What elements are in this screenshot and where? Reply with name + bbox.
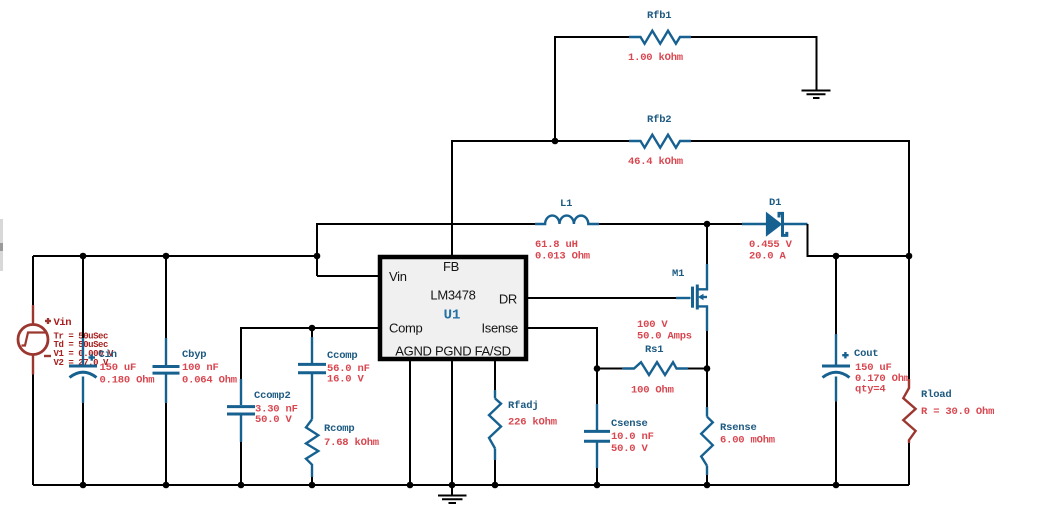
node rail Cout xyxy=(833,482,840,489)
svg-text:Rs1: Rs1 xyxy=(645,344,663,356)
svg-text:Ccomp2: Ccomp2 xyxy=(254,390,291,402)
node Rfb junction xyxy=(552,138,559,145)
svg-text:U1: U1 xyxy=(444,308,461,324)
scrollbar fragment left edge xyxy=(0,219,3,271)
svg-text:50.0 Amps: 50.0 Amps xyxy=(637,331,692,343)
svg-text:0.455 V: 0.455 V xyxy=(749,239,793,251)
ground (bottom center) xyxy=(438,485,467,503)
resistor Rfadj xyxy=(489,390,501,460)
capacitor Ccomp leads xyxy=(311,328,313,337)
svg-text:Rload: Rload xyxy=(921,389,952,401)
svg-text:226 kOhm: 226 kOhm xyxy=(508,417,557,429)
capacitor Cbyp xyxy=(153,256,180,485)
wire top-left rail xyxy=(33,255,317,257)
wire D1 to Vout corner xyxy=(808,224,910,256)
svg-text:16.0 V: 16.0 V xyxy=(327,374,365,386)
svg-text:qty=4: qty=4 xyxy=(855,384,886,396)
node Ccomp tap xyxy=(309,325,316,332)
resistor Rfb2 xyxy=(629,135,691,148)
U1 LM3478 body xyxy=(380,257,526,359)
node Rs1 right xyxy=(704,365,711,372)
source Vin xyxy=(18,256,48,485)
node Vout right xyxy=(906,253,913,260)
wire Rfb2 lead-in xyxy=(555,140,629,142)
node Cbyp top xyxy=(163,253,170,260)
svg-text:M1: M1 xyxy=(672,268,684,280)
wire PGND xyxy=(451,359,453,485)
svg-text:7.68 kOhm: 7.68 kOhm xyxy=(324,437,379,449)
svg-text:FB: FB xyxy=(443,259,459,274)
node rail Cin xyxy=(80,482,87,489)
polarity + Cin xyxy=(89,354,96,360)
wire AGND xyxy=(409,359,411,485)
node rail Csense xyxy=(594,482,601,489)
svg-text:100 Ohm: 100 Ohm xyxy=(631,385,674,397)
wire Comp xyxy=(241,328,380,379)
wire riser to L1 feed xyxy=(317,224,535,276)
capacitor Ccomp2 xyxy=(227,379,255,442)
wire Rfb2 to right rail xyxy=(691,141,909,256)
svg-text:AGND PGND FA/SD: AGND PGND FA/SD xyxy=(395,344,510,359)
wire Vin pin xyxy=(317,275,380,277)
wire Ccomp2 to rail xyxy=(240,442,242,485)
svg-text:D1: D1 xyxy=(769,197,781,209)
svg-text:46.4 kOhm: 46.4 kOhm xyxy=(628,156,683,168)
wire M1 drain xyxy=(706,224,708,264)
svg-text:Ccomp: Ccomp xyxy=(327,350,358,362)
svg-text:Cin: Cin xyxy=(99,349,117,361)
node L1/D1/M1 xyxy=(704,221,711,228)
resistor Rfb1 xyxy=(629,31,691,44)
capacitor Ccomp xyxy=(298,337,326,419)
svg-text:Isense: Isense xyxy=(481,321,518,336)
polarity - Vin xyxy=(44,355,51,357)
wire DR to gate xyxy=(528,297,676,299)
polarity + Vin xyxy=(45,318,51,324)
capacitor Cout xyxy=(822,256,850,485)
svg-text:1.00 kOhm: 1.00 kOhm xyxy=(628,52,683,64)
svg-text:L1: L1 xyxy=(560,198,572,210)
svg-text:0.180 Ohm: 0.180 Ohm xyxy=(100,375,155,387)
wire Rfadj to rail xyxy=(494,460,496,485)
svg-text:Rfb2: Rfb2 xyxy=(647,114,671,126)
wire Rfb2 left segment to FB xyxy=(452,141,555,255)
svg-text:Rsense: Rsense xyxy=(720,422,757,434)
wire Rload to rail xyxy=(908,443,910,485)
svg-text:Cout: Cout xyxy=(854,348,878,360)
resistor Rcomp xyxy=(306,419,318,477)
node rail Cbyp xyxy=(163,482,170,489)
svg-text:Comp: Comp xyxy=(389,321,423,336)
svg-text:150 uF: 150 uF xyxy=(100,362,137,374)
svg-text:100 nF: 100 nF xyxy=(182,362,219,374)
node rail PGND xyxy=(449,482,456,489)
svg-text:R = 30.0 Ohm: R = 30.0 Ohm xyxy=(921,406,994,418)
node rail FA/SD xyxy=(492,482,499,489)
svg-text:61.8 uH: 61.8 uH xyxy=(535,239,578,251)
node Cin top xyxy=(80,253,87,260)
svg-text:20.0 A: 20.0 A xyxy=(749,251,787,263)
svg-text:50.0 V: 50.0 V xyxy=(611,443,649,455)
svg-text:Cbyp: Cbyp xyxy=(182,349,206,361)
wire FA/SD xyxy=(494,359,496,390)
capacitor Cin xyxy=(69,256,97,485)
wire Isense xyxy=(528,328,597,369)
wire bottom rail xyxy=(33,484,909,486)
capacitor Csense xyxy=(584,369,610,486)
svg-text:6.00 mOhm: 6.00 mOhm xyxy=(720,435,775,447)
node Rs1 left xyxy=(594,365,601,372)
svg-text:LM3478: LM3478 xyxy=(430,288,475,303)
resistor Rsense xyxy=(701,369,713,486)
svg-text:0.013 Ohm: 0.013 Ohm xyxy=(535,251,590,263)
transistor M1 xyxy=(676,264,707,331)
ground (top right) xyxy=(802,91,831,99)
node rail Ccomp2 xyxy=(238,482,245,489)
svg-text:Csense: Csense xyxy=(611,418,648,430)
wire Rfb1 to ground xyxy=(691,37,817,90)
polarity + Cout xyxy=(842,352,848,358)
node rail Rcomp xyxy=(309,482,316,489)
resistor Rs1 xyxy=(597,362,707,375)
svg-text:Rcomp: Rcomp xyxy=(324,423,355,435)
wire Rfb1 left + vertical to Rfb2 junction xyxy=(555,37,629,141)
node rail AGND xyxy=(407,482,414,489)
wire L1 to node xyxy=(599,223,742,225)
svg-text:Rfadj: Rfadj xyxy=(508,400,539,412)
svg-text:10.0 nF: 10.0 nF xyxy=(611,431,654,443)
inductor L1 xyxy=(535,216,599,224)
resistor Rload xyxy=(903,379,915,443)
wire right rail to Rload xyxy=(908,256,910,379)
svg-text:50.0 V: 50.0 V xyxy=(255,414,293,426)
diode D1 xyxy=(742,213,808,236)
svg-text:Rfb1: Rfb1 xyxy=(647,10,671,22)
node Cout top xyxy=(833,253,840,260)
svg-text:Vin: Vin xyxy=(54,317,72,329)
svg-text:0.064 Ohm: 0.064 Ohm xyxy=(182,375,237,387)
wire M1 source xyxy=(706,331,708,369)
svg-text:DR: DR xyxy=(499,292,517,307)
svg-text:100 V: 100 V xyxy=(637,319,668,331)
wire Rcomp to rail xyxy=(311,477,313,485)
svg-text:Vin: Vin xyxy=(389,269,407,284)
node riser xyxy=(314,253,321,260)
node rail Rsense xyxy=(704,482,711,489)
